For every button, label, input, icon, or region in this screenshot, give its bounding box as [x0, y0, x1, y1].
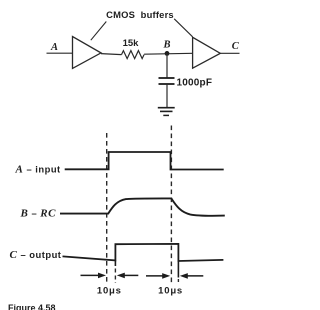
svg-text:10μs: 10μs [97, 285, 122, 296]
wire U1 out to resistor [101, 54, 122, 55]
svg-text:C: C [232, 41, 240, 52]
dashed timing line t1 [106, 133, 108, 283]
waveform A input trace [65, 152, 224, 170]
capacitor C1 top plate [159, 77, 175, 79]
svg-text:CMOS buffers: CMOS buffers [106, 9, 174, 20]
ground symbol [158, 108, 175, 116]
waveform B RC trace [60, 198, 225, 215]
svg-text:C – output: C – output [10, 249, 62, 261]
wire capacitor to ground [166, 84, 168, 108]
dimension arrow left of t1 [81, 273, 107, 279]
wire U2 output to C [220, 52, 239, 54]
wire resistor to buffer U2 [144, 52, 193, 55]
capacitor C1 bottom plate [159, 83, 175, 85]
svg-text:15k: 15k [123, 38, 140, 49]
C rising edge dashed extension [114, 269, 116, 284]
dimension arrow left of t2 [146, 273, 170, 279]
C falling edge extension [177, 261, 179, 278]
C rising edge extension tick [114, 260, 116, 266]
leader line to buffer U2 [174, 19, 192, 37]
op-amp buffer U2 [193, 37, 221, 68]
wire input A [47, 52, 73, 54]
svg-text:Figure 4.58: Figure 4.58 [8, 303, 56, 310]
svg-text:B: B [162, 40, 170, 51]
svg-text:A – input: A – input [15, 163, 61, 175]
dimension arrow right of C falling edge [180, 273, 204, 279]
label: CMOS buffers [106, 9, 174, 20]
dashed timing line t2 [170, 126, 172, 284]
svg-text:1000pF: 1000pF [177, 78, 213, 89]
svg-text:A: A [50, 42, 58, 53]
op-amp buffer U1 [73, 37, 102, 69]
dimension arrow right of C rising edge [117, 273, 139, 279]
waveform C output trace [63, 244, 224, 261]
svg-text:B – RC: B – RC [20, 207, 57, 219]
resistor R1 zigzag [122, 51, 145, 59]
svg-text:10μs: 10μs [158, 285, 183, 296]
C falling edge dashed extension [177, 279, 179, 283]
leader line to buffer U1 [91, 22, 107, 41]
node B junction dot [165, 51, 170, 56]
wire node B down to capacitor [166, 53, 168, 78]
